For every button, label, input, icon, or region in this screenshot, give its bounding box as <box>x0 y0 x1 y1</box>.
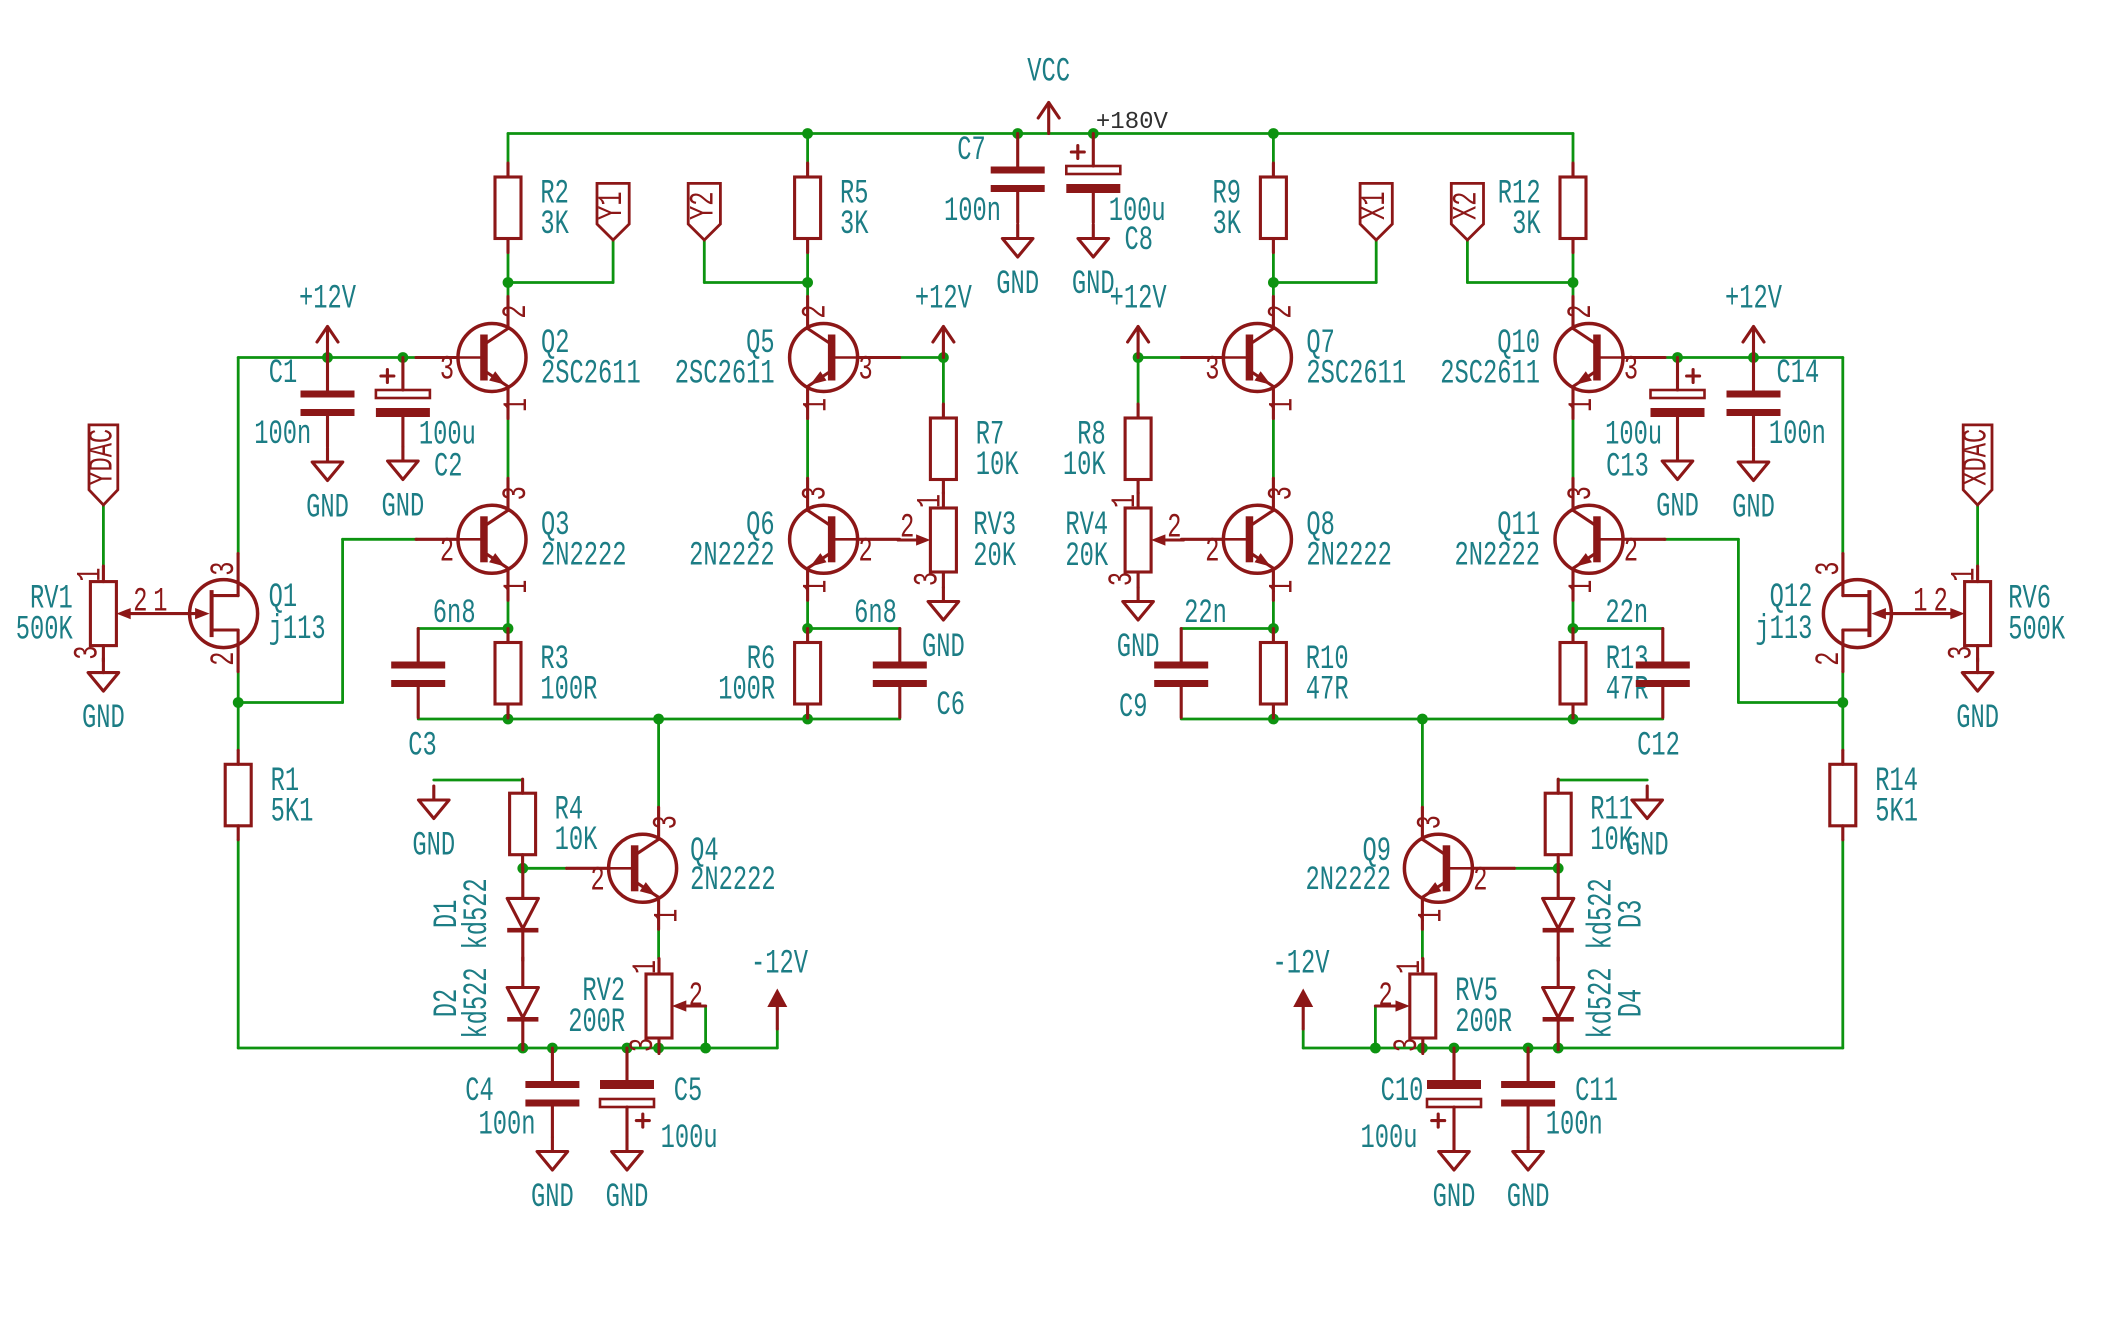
potentiometer RV5 <box>1375 959 1512 1054</box>
capacitor C4 <box>465 1048 579 1145</box>
wire 22n C12 <box>1573 627 1663 630</box>
svg-text:3K: 3K <box>1512 206 1541 244</box>
svg-text:3: 3 <box>1563 486 1601 500</box>
resistor R1 <box>225 750 313 840</box>
ground C2 <box>382 447 425 527</box>
node RV5 wiper rail <box>1370 1043 1381 1054</box>
node Y1 <box>503 277 514 288</box>
svg-text:GND: GND <box>606 1179 649 1217</box>
svg-text:GND: GND <box>1072 266 1115 304</box>
power -12V right <box>1273 946 1330 1030</box>
svg-text:GND: GND <box>1626 828 1669 866</box>
transistor Q1 <box>153 554 325 672</box>
node rail R3 <box>503 714 514 725</box>
svg-text:C4: C4 <box>465 1073 494 1111</box>
svg-text:2: 2 <box>689 978 703 1016</box>
svg-text:-12V: -12V <box>751 946 808 984</box>
ground C14 <box>1732 448 1775 528</box>
capacitor C12 <box>1605 595 1689 766</box>
svg-text:3: 3 <box>625 1038 663 1052</box>
svg-text:2N2222: 2N2222 <box>1455 537 1541 575</box>
resistor R4 <box>510 779 598 869</box>
svg-text:100u: 100u <box>661 1120 718 1158</box>
svg-text:C10: C10 <box>1381 1073 1424 1111</box>
svg-text:1: 1 <box>799 398 837 412</box>
wire Q11 base drop <box>1737 539 1740 702</box>
svg-text:1: 1 <box>628 960 666 974</box>
transistor Q8 <box>1181 478 1392 600</box>
node C1 <box>322 352 333 363</box>
ground C10 <box>1433 1138 1476 1218</box>
svg-text:3K: 3K <box>1213 206 1242 244</box>
svg-text:GND: GND <box>382 489 425 527</box>
wire Q3 emitter <box>507 600 510 628</box>
svg-text:100n: 100n <box>1769 416 1826 454</box>
label Y1 <box>594 183 632 240</box>
wire 6n8 C6 <box>808 627 900 630</box>
wire R1 top <box>237 703 240 751</box>
wire Y1 to node <box>508 281 613 284</box>
svg-text:C11: C11 <box>1575 1073 1618 1111</box>
wire R2 to Q2 <box>507 253 510 297</box>
svg-text:GND: GND <box>1117 629 1160 667</box>
svg-text:2N2222: 2N2222 <box>690 862 776 900</box>
ground C13 <box>1656 447 1699 527</box>
svg-text:2SC2611: 2SC2611 <box>1440 356 1540 394</box>
svg-text:3: 3 <box>1944 646 1982 660</box>
svg-text:+12V: +12V <box>1725 281 1782 319</box>
svg-text:20K: 20K <box>1065 538 1108 576</box>
capacitor C10 <box>1361 1048 1482 1158</box>
svg-text:10K: 10K <box>1063 447 1106 485</box>
node R11 D3 <box>1553 863 1564 874</box>
wire RV5 wiper drop <box>1374 1006 1377 1048</box>
svg-text:2: 2 <box>798 304 836 318</box>
transistor Q5 <box>675 297 900 419</box>
svg-text:1: 1 <box>1947 568 1985 582</box>
svg-text:22n: 22n <box>1184 595 1227 633</box>
power +12V C14 <box>1725 281 1782 358</box>
wire X2 drop <box>1466 240 1469 283</box>
svg-text:100n: 100n <box>944 193 1001 231</box>
capacitor C2 <box>376 358 476 487</box>
node RV2 rail <box>653 1043 664 1054</box>
svg-text:kd522: kd522 <box>1583 878 1621 949</box>
capacitor C1 <box>254 355 354 454</box>
node rail Q4 <box>653 714 664 725</box>
node Q1 source <box>233 697 244 708</box>
wire R4 gnd <box>434 779 523 782</box>
resistor R3 <box>495 629 597 719</box>
node D2 rail <box>517 1043 528 1054</box>
transistor Q6 <box>689 478 900 600</box>
svg-text:C7: C7 <box>957 132 986 170</box>
wire X1 to node <box>1273 281 1376 284</box>
diode D3 <box>1543 868 1652 960</box>
svg-text:3: 3 <box>498 486 536 500</box>
svg-text:3: 3 <box>909 572 947 586</box>
svg-text:3: 3 <box>440 352 454 390</box>
label YDAC <box>84 425 122 505</box>
potentiometer RV4 <box>1065 493 1183 588</box>
transistor Q4 <box>567 807 776 929</box>
node C10 rail <box>1449 1043 1460 1054</box>
svg-text:GND: GND <box>996 266 1039 304</box>
svg-text:Y2: Y2 <box>685 191 723 220</box>
svg-text:kd522: kd522 <box>459 967 497 1038</box>
svg-text:3K: 3K <box>840 206 869 244</box>
wire Q1 source <box>237 672 240 703</box>
svg-text:3: 3 <box>1263 486 1301 500</box>
wire R9 top <box>1272 134 1275 164</box>
wire R2 top <box>507 134 510 164</box>
wire R5 to Q5 <box>806 253 809 297</box>
ground RV4 <box>1117 588 1160 668</box>
node C4 rail <box>547 1043 558 1054</box>
svg-text:100u: 100u <box>1605 416 1662 454</box>
wire XDAC to RV6 <box>1976 505 1979 566</box>
svg-text:500K: 500K <box>2008 612 2065 650</box>
svg-text:XDAC: XDAC <box>1959 429 1997 486</box>
ground R11 <box>1626 786 1669 866</box>
svg-text:2: 2 <box>859 533 873 571</box>
svg-text:GND: GND <box>922 629 965 667</box>
node X2 <box>1568 277 1579 288</box>
svg-text:1: 1 <box>72 568 110 582</box>
wire X bottom rail <box>1181 718 1663 721</box>
svg-text:3: 3 <box>1389 1038 1427 1052</box>
svg-text:+180V: +180V <box>1096 109 1169 136</box>
svg-text:kd522: kd522 <box>459 878 497 949</box>
resistor R2 <box>495 163 569 253</box>
transistor Q10 <box>1440 297 1665 419</box>
wire Y2 drop <box>703 240 706 283</box>
transistor Q11 <box>1455 478 1666 600</box>
svg-text:C9: C9 <box>1119 689 1148 727</box>
wire +12V rail left <box>238 356 417 359</box>
wire R5 top <box>806 134 809 164</box>
resistor R10 <box>1260 629 1348 719</box>
svg-text:3: 3 <box>69 646 107 660</box>
svg-text:100u: 100u <box>419 416 476 454</box>
wire Q7-Q8 <box>1272 419 1275 479</box>
capacitor C13 <box>1605 358 1704 487</box>
capacitor C3 <box>391 595 475 766</box>
svg-text:5K1: 5K1 <box>1875 793 1918 831</box>
wire Q9 collector <box>1421 719 1424 807</box>
wire Q9 base to R11 <box>1514 867 1558 870</box>
wire Q3 base <box>343 538 417 541</box>
svg-text:100n: 100n <box>479 1107 536 1145</box>
svg-text:1: 1 <box>1413 909 1451 923</box>
svg-text:20K: 20K <box>973 538 1016 576</box>
ground RV6 <box>1956 659 1999 739</box>
wire Q3 base drop <box>341 539 344 702</box>
node +12V R7 <box>938 352 949 363</box>
svg-text:GND: GND <box>1956 700 1999 738</box>
svg-text:3: 3 <box>859 352 873 390</box>
wire Y bottom rail <box>418 718 900 721</box>
resistor R8 <box>1063 404 1151 494</box>
svg-text:C14: C14 <box>1777 355 1820 393</box>
potentiometer RV2 <box>568 959 705 1054</box>
svg-text:10K: 10K <box>555 822 598 860</box>
svg-text:3: 3 <box>1104 572 1142 586</box>
label X2 <box>1448 183 1486 240</box>
svg-text:500K: 500K <box>16 612 73 650</box>
wire Q8 emitter <box>1272 600 1275 628</box>
ground C8 <box>1072 225 1115 305</box>
svg-text:3: 3 <box>1412 815 1450 829</box>
svg-text:200R: 200R <box>568 1004 625 1042</box>
node Q12 source <box>1837 697 1848 708</box>
node C14 <box>1748 352 1759 363</box>
svg-text:2: 2 <box>1624 533 1638 571</box>
wire Q11 base <box>1664 538 1738 541</box>
diode D2 <box>429 958 538 1050</box>
svg-text:2: 2 <box>1563 304 1601 318</box>
svg-text:2: 2 <box>440 533 454 571</box>
wire Q10-Q11 <box>1572 419 1575 479</box>
svg-text:1: 1 <box>1264 398 1302 412</box>
svg-text:3K: 3K <box>540 206 569 244</box>
node 22n right <box>1568 623 1579 634</box>
svg-text:100u: 100u <box>1109 193 1166 231</box>
node C5 rail <box>622 1043 633 1054</box>
svg-text:1: 1 <box>1564 580 1602 594</box>
svg-text:GND: GND <box>531 1179 574 1217</box>
node rail R6 <box>802 714 813 725</box>
svg-text:1: 1 <box>153 584 167 622</box>
svg-text:100n: 100n <box>254 416 311 454</box>
wire +12V rail right <box>1665 356 1843 359</box>
node C2 <box>398 352 409 363</box>
wire Q12 drain <box>1841 358 1844 555</box>
wire Q9 emitter <box>1421 929 1424 958</box>
svg-text:100u: 100u <box>1361 1120 1418 1158</box>
resistor R5 <box>795 163 869 253</box>
power -12V left <box>751 946 808 1030</box>
svg-text:1: 1 <box>650 909 688 923</box>
power +12V C1 <box>299 281 356 358</box>
node D4 rail <box>1553 1043 1564 1054</box>
power +12V R7 <box>915 281 972 358</box>
svg-text:-12V: -12V <box>1273 946 1330 984</box>
wire X2 to node <box>1467 281 1573 284</box>
svg-text:+12V: +12V <box>1110 281 1167 319</box>
wire to Q12 source <box>1738 701 1842 704</box>
svg-text:100R: 100R <box>540 672 597 710</box>
potentiometer RV6 <box>1885 566 2065 661</box>
capacitor C11 <box>1501 1048 1618 1145</box>
capacitor C7 <box>944 132 1045 231</box>
node RV2 wiper rail <box>700 1043 711 1054</box>
wire YDAC to RV1 <box>102 505 105 566</box>
node 6n8 right <box>802 623 813 634</box>
resistor R9 <box>1213 163 1287 253</box>
svg-text:+12V: +12V <box>915 281 972 319</box>
diode D4 <box>1543 958 1652 1050</box>
svg-text:2N2222: 2N2222 <box>541 537 627 575</box>
capacitor C9 <box>1119 595 1227 727</box>
wire R8 top <box>1137 358 1140 405</box>
label +180V <box>1096 109 1169 136</box>
wire VCC top rail <box>508 132 1573 135</box>
wire -12V left stub <box>776 1029 779 1048</box>
svg-text:j113: j113 <box>269 611 326 649</box>
svg-text:1: 1 <box>799 580 837 594</box>
svg-text:VCC: VCC <box>1027 53 1070 91</box>
svg-text:2SC2611: 2SC2611 <box>675 356 775 394</box>
svg-text:5K1: 5K1 <box>271 793 314 831</box>
svg-text:YDAC: YDAC <box>84 429 122 486</box>
svg-text:GND: GND <box>1656 489 1699 527</box>
node R5 top <box>802 128 813 139</box>
svg-text:2: 2 <box>1379 978 1393 1016</box>
label X1 <box>1357 183 1395 240</box>
svg-text:C1: C1 <box>269 355 298 393</box>
svg-text:6n8: 6n8 <box>854 595 897 633</box>
svg-text:10K: 10K <box>976 447 1019 485</box>
svg-text:100n: 100n <box>1546 1107 1603 1145</box>
ground C11 <box>1507 1138 1550 1218</box>
transistor Q12 <box>1755 554 1927 672</box>
node 22n left <box>1268 623 1279 634</box>
label Y2 <box>685 183 723 240</box>
svg-text:1: 1 <box>912 494 950 508</box>
svg-text:2: 2 <box>206 652 244 666</box>
transistor Q3 <box>416 478 627 600</box>
svg-text:X1: X1 <box>1357 191 1395 220</box>
wire Y1 drop <box>612 240 615 283</box>
wire R14 bottom <box>1841 840 1844 1048</box>
node R4 D1 <box>517 863 528 874</box>
wire Q11 emitter <box>1572 600 1575 628</box>
ground RV3 <box>922 588 965 668</box>
wire RV2 wiper drop <box>704 1006 707 1048</box>
node C7 top <box>1012 128 1023 139</box>
svg-text:1: 1 <box>1107 494 1145 508</box>
svg-text:2: 2 <box>1811 652 1849 666</box>
node C11 rail <box>1523 1043 1534 1054</box>
svg-text:3: 3 <box>1624 352 1638 390</box>
wire R7 top <box>942 358 945 405</box>
wire Q2-Q3 <box>507 419 510 479</box>
svg-text:C5: C5 <box>674 1073 703 1111</box>
svg-text:2N2222: 2N2222 <box>689 537 775 575</box>
capacitor C5 <box>600 1048 718 1158</box>
resistor R14 <box>1830 750 1918 840</box>
svg-text:X2: X2 <box>1448 191 1486 220</box>
svg-text:GND: GND <box>1433 1179 1476 1217</box>
resistor R6 <box>718 629 820 719</box>
svg-text:2: 2 <box>1167 509 1181 547</box>
wire Q5 base to +12V <box>900 356 944 359</box>
svg-text:3: 3 <box>1811 562 1849 576</box>
svg-text:2N2222: 2N2222 <box>1306 537 1392 575</box>
svg-text:C12: C12 <box>1637 728 1680 766</box>
node C13 <box>1672 352 1683 363</box>
wire R1 bottom <box>237 840 240 1048</box>
wire Q7 base to +12V <box>1138 356 1181 359</box>
svg-text:Y1: Y1 <box>594 191 632 220</box>
node rail Q9 <box>1417 714 1428 725</box>
wire Y2 to node <box>704 281 807 284</box>
svg-text:GND: GND <box>1507 1179 1550 1217</box>
transistor Q2 <box>416 297 641 419</box>
node C8 top <box>1088 128 1099 139</box>
svg-text:47R: 47R <box>1306 672 1349 710</box>
power VCC <box>1027 53 1070 133</box>
ground C5 <box>606 1138 649 1218</box>
ground RV1 <box>82 659 125 739</box>
svg-text:2: 2 <box>591 862 605 900</box>
svg-text:j113: j113 <box>1755 611 1812 649</box>
wire R11 gnd <box>1558 779 1647 782</box>
wire R14 top <box>1841 703 1844 751</box>
svg-text:2: 2 <box>133 584 147 622</box>
svg-text:2: 2 <box>1473 862 1487 900</box>
transistor Q7 <box>1181 297 1406 419</box>
svg-text:GND: GND <box>412 828 455 866</box>
svg-text:2SC2611: 2SC2611 <box>1306 356 1406 394</box>
ground C7 <box>996 225 1039 305</box>
resistor R12 <box>1498 163 1586 253</box>
ground C1 <box>306 448 349 528</box>
wire right bottom rail <box>1303 1047 1843 1050</box>
svg-text:2: 2 <box>900 509 914 547</box>
node RV5 rail <box>1417 1043 1428 1054</box>
svg-text:2N2222: 2N2222 <box>1306 862 1392 900</box>
wire Q5-Q6 <box>806 419 809 479</box>
wire X1 drop <box>1375 240 1378 283</box>
svg-text:GND: GND <box>1732 490 1775 528</box>
svg-text:100R: 100R <box>718 672 775 710</box>
svg-text:1: 1 <box>1264 580 1302 594</box>
svg-text:2: 2 <box>1205 533 1219 571</box>
ground C4 <box>531 1138 574 1218</box>
svg-text:3: 3 <box>649 815 687 829</box>
svg-text:C3: C3 <box>408 728 437 766</box>
node R9 top <box>1268 128 1279 139</box>
resistor R11 <box>1545 779 1633 869</box>
potentiometer RV1 <box>16 566 196 661</box>
label XDAC <box>1959 425 1997 505</box>
capacitor C8 <box>1066 134 1165 261</box>
wire -12V right stub <box>1302 1029 1305 1048</box>
svg-text:2SC2611: 2SC2611 <box>541 356 641 394</box>
svg-text:1: 1 <box>499 580 537 594</box>
wire Q4 collector <box>657 719 660 807</box>
svg-text:GND: GND <box>82 700 125 738</box>
wire 22n C9 <box>1181 627 1273 630</box>
capacitor C6 <box>854 595 965 725</box>
node +12V R8 <box>1133 352 1144 363</box>
svg-text:+12V: +12V <box>299 281 356 319</box>
wire Q12 source <box>1841 672 1844 703</box>
svg-text:1: 1 <box>499 398 537 412</box>
svg-text:22n: 22n <box>1605 595 1648 633</box>
svg-text:6n8: 6n8 <box>433 595 476 633</box>
wire R12 to Q10 <box>1572 253 1575 297</box>
svg-text:3: 3 <box>798 486 836 500</box>
svg-text:1: 1 <box>1564 398 1602 412</box>
node 6n8 left <box>503 623 514 634</box>
wire 6n8 C3 <box>418 627 508 630</box>
wire Q4 emitter <box>657 929 660 958</box>
node X1 <box>1268 277 1279 288</box>
wire R4 to Q4 base <box>523 867 567 870</box>
